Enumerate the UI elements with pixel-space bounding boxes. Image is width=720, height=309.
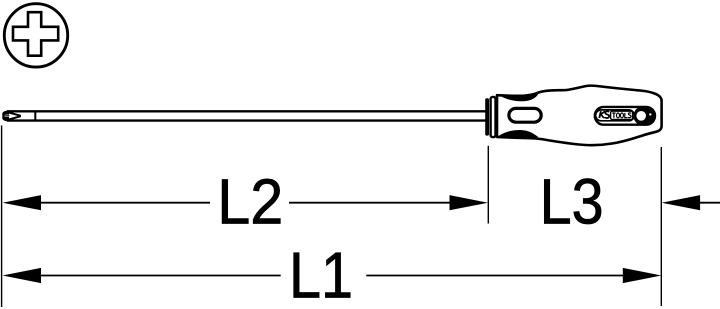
logo panel (stadium inset) [595, 107, 655, 125]
TOOLS letter S [628, 113, 631, 118]
KS TOOLS badge outline [596, 110, 635, 121]
svg-text:L1: L1 [289, 239, 353, 309]
tip center dash [5, 115, 9, 117]
extension line right (handle end) [660, 147, 662, 306]
phillips bit icon: circle [4, 4, 67, 67]
shaft top line [7, 110, 487, 112]
grip shadow crescent bottom [498, 130, 539, 138]
hang hole highlight dot [649, 113, 651, 115]
tip/shaft separation tick [34, 111, 36, 121]
L1 arrow left [3, 268, 42, 283]
TOOLS letter L [625, 113, 628, 118]
tip flute lower line [8, 116, 21, 120]
hang-hole black pill [634, 106, 656, 125]
hang hole white circle [636, 111, 646, 121]
TOOLS box [611, 111, 633, 119]
L2 dimension line right segment [289, 202, 452, 204]
svg-text:L3: L3 [540, 166, 604, 238]
tip flute upper line [8, 112, 21, 116]
ferrule black bar [485, 98, 489, 135]
L1 arrow right [623, 268, 662, 283]
grip hole (rounded slot) [509, 108, 541, 122]
screwdriver tip nose block [2, 110, 9, 121]
L3 arrow (from right, pointing left) [662, 195, 701, 210]
KS letter K (italic strokes) [599, 111, 601, 118]
collar ring [491, 97, 496, 137]
L1 dimension line right segment [366, 275, 625, 277]
TOOLS letter O [617, 113, 620, 118]
grip shadow crescent top [498, 93, 539, 102]
handle silhouette [497, 86, 662, 146]
extension line left [1, 126, 3, 308]
tip nose white slit [5, 115, 11, 117]
L2 arrow left [3, 195, 42, 210]
KS letter S (italic) [604, 111, 609, 118]
extension line middle (shaft end) [487, 146, 489, 224]
L1 dimension line left segment [38, 275, 281, 277]
L2 dimension line left segment [38, 202, 210, 204]
phillips bit icon: cross [13, 12, 58, 56]
TOOLS letter T [612, 113, 615, 118]
TOOLS letter O [620, 113, 623, 118]
svg-text:L2: L2 [217, 166, 283, 238]
L3 arrow tail [698, 202, 720, 204]
L2 arrow right [450, 195, 489, 210]
shaft bottom line [7, 119, 487, 121]
